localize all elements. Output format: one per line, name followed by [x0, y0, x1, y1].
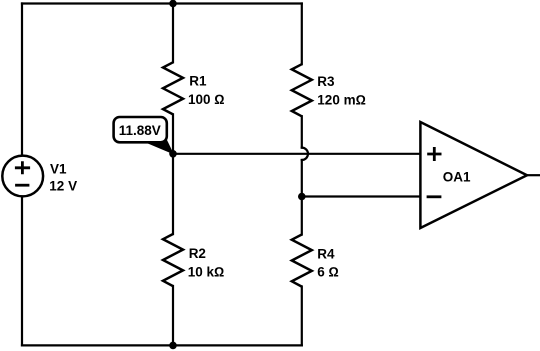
svg-text:100 Ω: 100 Ω [188, 92, 225, 107]
svg-text:OA1: OA1 [443, 170, 471, 185]
svg-text:R2: R2 [189, 246, 206, 261]
svg-text:R4: R4 [317, 246, 335, 261]
svg-text:120 mΩ: 120 mΩ [317, 92, 366, 107]
svg-text:R3: R3 [317, 74, 335, 89]
svg-text:12 V: 12 V [49, 178, 77, 193]
svg-text:6 Ω: 6 Ω [317, 264, 339, 279]
svg-text:11.88V: 11.88V [119, 123, 161, 138]
svg-text:V1: V1 [50, 161, 67, 176]
svg-text:10 kΩ: 10 kΩ [188, 264, 225, 279]
svg-text:R1: R1 [189, 74, 207, 89]
